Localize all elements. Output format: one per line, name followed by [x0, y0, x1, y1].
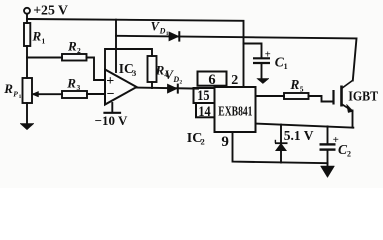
svg-text:1: 1	[19, 94, 22, 100]
svg-text:2: 2	[201, 136, 205, 146]
svg-text:D: D	[172, 75, 179, 84]
svg-text:R: R	[66, 76, 76, 91]
svg-text:EXB841: EXB841	[218, 105, 252, 120]
svg-text:5: 5	[300, 84, 304, 93]
svg-text:3: 3	[132, 68, 136, 78]
svg-text:1: 1	[166, 31, 169, 37]
svg-text:R: R	[67, 38, 77, 53]
svg-text:1: 1	[284, 62, 288, 71]
svg-text:R: R	[3, 81, 13, 96]
svg-text:P: P	[13, 89, 18, 98]
svg-text:R: R	[155, 63, 165, 78]
svg-text:5.1 V: 5.1 V	[284, 128, 314, 143]
svg-text:1: 1	[42, 37, 46, 46]
svg-text:R: R	[32, 29, 42, 44]
svg-text:15: 15	[197, 88, 209, 104]
svg-text:2: 2	[231, 73, 238, 88]
svg-text:+: +	[265, 50, 271, 61]
svg-text:6: 6	[208, 72, 215, 88]
svg-text:R: R	[289, 77, 299, 92]
svg-text:−: −	[107, 87, 115, 102]
svg-text:IGBT: IGBT	[348, 90, 379, 105]
svg-text:2: 2	[347, 149, 351, 158]
svg-text:2: 2	[179, 80, 182, 86]
svg-text:9: 9	[221, 134, 229, 150]
svg-text:D: D	[159, 27, 166, 36]
svg-text:3: 3	[77, 83, 81, 92]
svg-text:14: 14	[198, 104, 210, 120]
svg-text:+25 V: +25 V	[33, 3, 68, 18]
svg-text:2: 2	[77, 46, 81, 55]
svg-text:−10 V: −10 V	[95, 113, 128, 128]
